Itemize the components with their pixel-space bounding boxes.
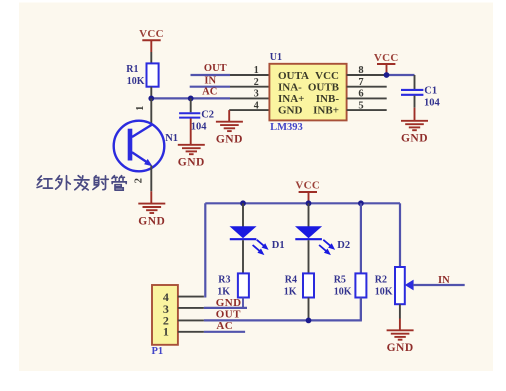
svg-text:INA+: INA+: [278, 93, 304, 105]
svg-text:2: 2: [254, 77, 259, 88]
svg-text:INB-: INB-: [316, 93, 340, 105]
svg-text:VCC: VCC: [139, 28, 164, 40]
svg-text:GND: GND: [216, 297, 242, 309]
svg-text:C2: C2: [201, 110, 214, 121]
svg-text:GND: GND: [178, 157, 205, 169]
svg-text:GND: GND: [216, 134, 243, 146]
svg-text:R1: R1: [126, 64, 138, 75]
svg-text:10K: 10K: [127, 76, 145, 87]
svg-text:2: 2: [134, 178, 145, 183]
svg-text:OUT: OUT: [204, 63, 227, 74]
svg-text:IN: IN: [204, 76, 216, 87]
svg-text:10K: 10K: [334, 287, 352, 298]
svg-text:D2: D2: [337, 240, 350, 251]
svg-text:R5: R5: [334, 275, 346, 286]
svg-text:LM393: LM393: [270, 122, 303, 133]
svg-text:VCC: VCC: [315, 70, 339, 82]
svg-text:1K: 1K: [284, 287, 297, 298]
svg-text:104: 104: [191, 122, 208, 133]
svg-text:GND: GND: [138, 215, 165, 227]
svg-text:GND: GND: [401, 133, 428, 145]
svg-text:R4: R4: [285, 275, 297, 286]
svg-text:OUTB: OUTB: [308, 81, 340, 93]
svg-text:INB+: INB+: [313, 105, 339, 117]
svg-text:4: 4: [254, 100, 259, 111]
svg-text:AC: AC: [202, 87, 217, 98]
svg-text:GND: GND: [387, 342, 414, 354]
svg-text:U1: U1: [270, 52, 282, 63]
svg-text:R3: R3: [218, 275, 230, 286]
svg-text:D1: D1: [272, 240, 285, 251]
svg-text:P1: P1: [152, 346, 164, 357]
svg-text:10K: 10K: [375, 287, 393, 298]
svg-text:1K: 1K: [217, 287, 230, 298]
svg-text:IN: IN: [438, 275, 450, 286]
svg-text:R2: R2: [375, 275, 387, 286]
svg-text:1: 1: [163, 325, 169, 339]
svg-text:1: 1: [135, 106, 146, 111]
svg-text:3: 3: [254, 89, 259, 100]
svg-text:C1: C1: [424, 86, 437, 97]
svg-text:104: 104: [424, 98, 441, 109]
svg-text:1: 1: [254, 65, 259, 76]
svg-text:OUT: OUT: [216, 308, 241, 320]
svg-text:VCC: VCC: [295, 180, 320, 192]
svg-text:GND: GND: [278, 105, 303, 117]
svg-text:AC: AC: [216, 320, 233, 332]
svg-text:N1: N1: [165, 133, 178, 144]
svg-text:INA-: INA-: [278, 81, 302, 93]
svg-text:OUTA: OUTA: [278, 70, 309, 82]
svg-text:VCC: VCC: [374, 52, 399, 64]
